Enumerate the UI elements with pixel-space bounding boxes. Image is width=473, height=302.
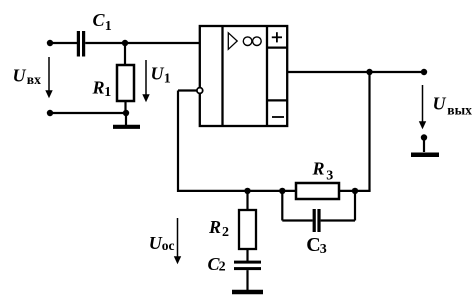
svg-text:3: 3 <box>320 242 327 257</box>
wire feedback horizontal <box>178 190 296 192</box>
label C1 <box>93 10 112 34</box>
wire <box>85 42 200 44</box>
arrow Uvx <box>45 57 52 98</box>
wire feedback vertical left <box>177 91 179 193</box>
node C3 left junction <box>279 188 285 194</box>
node input top terminal <box>47 40 53 46</box>
node A junction C1/R1 <box>122 40 128 46</box>
wire R1 bottom lead <box>124 101 126 113</box>
wire R1 top lead <box>124 43 126 65</box>
capacitor C3 <box>313 209 321 232</box>
svg-text:U: U <box>433 94 447 114</box>
op-amp right column divider <box>266 26 268 126</box>
wire inverting input <box>178 89 197 91</box>
node bottom junction <box>123 110 129 116</box>
svg-text:2: 2 <box>222 225 229 240</box>
ground C2 <box>232 290 263 295</box>
svg-text:3: 3 <box>326 169 333 184</box>
op-amp right column cell line top <box>267 46 287 48</box>
op-amp inverting input bubble <box>197 88 203 94</box>
svg-text:R: R <box>312 159 325 179</box>
wire R3 to corner <box>339 190 371 192</box>
wire feedback right vertical <box>368 72 370 191</box>
node output junction <box>366 69 372 75</box>
label C3 <box>306 234 327 257</box>
arrow U1 <box>142 60 149 102</box>
wire C2 bottom lead <box>246 270 248 290</box>
ground <box>113 113 140 127</box>
node input bottom terminal <box>47 110 53 116</box>
svg-text:ос: ос <box>162 238 175 253</box>
op-amp right column cell line bottom <box>267 99 287 101</box>
wire output <box>287 71 424 73</box>
label Uvx <box>13 66 42 88</box>
svg-text:вых: вых <box>447 103 472 118</box>
label U1 <box>151 64 171 87</box>
resistor R1 <box>117 65 134 101</box>
arrow Uvyx <box>419 85 426 129</box>
svg-text:R: R <box>92 78 105 98</box>
svg-text:2: 2 <box>219 260 226 275</box>
resistor R3 <box>296 183 339 199</box>
capacitor C3 branch wire left <box>282 191 312 221</box>
op-amp U1 body <box>200 26 287 126</box>
svg-text:вх: вх <box>27 72 41 87</box>
node R2 junction <box>244 188 250 194</box>
svg-text:C: C <box>306 234 320 256</box>
capacitor C3 branch wire right <box>321 191 355 221</box>
arrow Uoc <box>174 218 181 264</box>
wire bottom <box>50 112 126 114</box>
svg-text:1: 1 <box>164 72 171 87</box>
svg-text:R: R <box>208 217 221 237</box>
label R2 <box>208 217 229 240</box>
op-amp minus sign <box>272 116 284 118</box>
svg-text:U: U <box>151 64 165 84</box>
svg-text:C: C <box>93 10 106 30</box>
capacitor C1 <box>77 31 85 57</box>
ground output <box>411 134 439 155</box>
op-amp plus sign <box>272 32 282 42</box>
node R3 right junction <box>352 188 358 194</box>
op-amp left column divider <box>221 26 223 126</box>
resistor R2 <box>239 210 256 249</box>
label R1 <box>92 78 112 100</box>
label Uoc <box>149 233 175 253</box>
wire R2 top lead <box>246 191 248 210</box>
svg-text:1: 1 <box>104 85 111 100</box>
capacitor C2 <box>234 261 261 271</box>
node output terminal <box>421 69 427 75</box>
label C2 <box>208 254 226 275</box>
svg-text:U: U <box>149 233 163 253</box>
label Uvyx <box>433 94 473 118</box>
op-amp infinity symbol <box>243 37 261 46</box>
svg-text:1: 1 <box>105 19 112 34</box>
wire R2 bottom lead <box>246 249 248 261</box>
label R3 <box>312 159 334 184</box>
op-amp triangle symbol <box>228 33 237 50</box>
svg-text:U: U <box>13 66 27 86</box>
wire <box>50 42 77 44</box>
